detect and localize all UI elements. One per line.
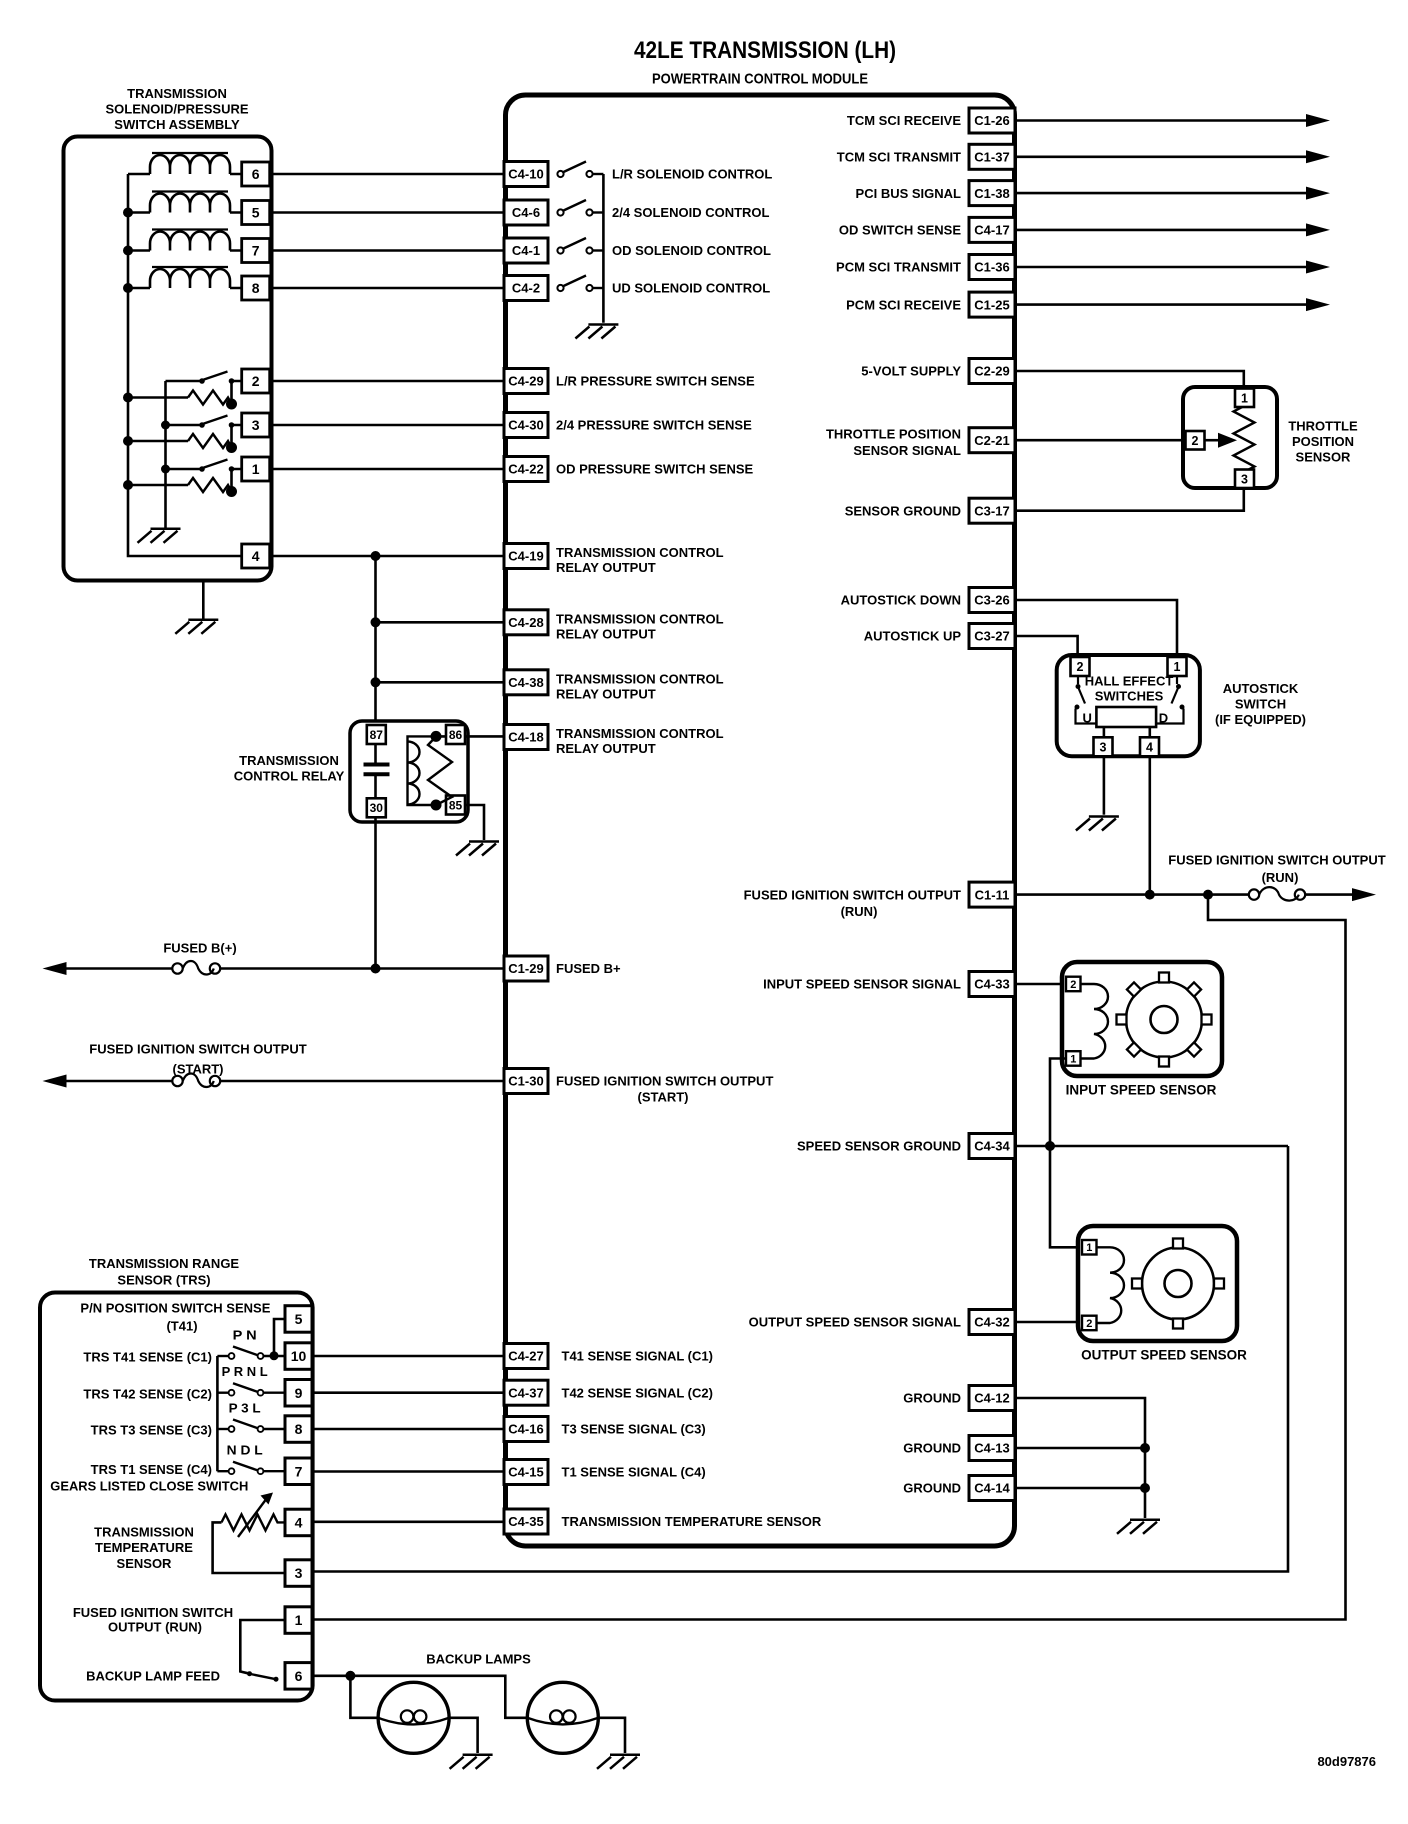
svg-text:D: D (1159, 711, 1168, 726)
svg-text:30: 30 (370, 801, 384, 815)
TPS wiper arrow (1205, 433, 1238, 448)
PCM pin C3-27 (969, 624, 1015, 649)
svg-text:(START): (START) (637, 1090, 688, 1105)
svg-text:OD SOLENOID CONTROL: OD SOLENOID CONTROL (612, 243, 771, 258)
relay pin 30 (367, 798, 386, 817)
OD pressure switch resistor feed wire (128, 484, 188, 487)
solenoid driver ground bus wire (602, 174, 605, 323)
wire pin 3 to C4-30 (270, 424, 504, 427)
svg-text:FUSED IGNITION SWITCH OUTPUT: FUSED IGNITION SWITCH OUTPUT (1168, 852, 1385, 867)
svg-text:2: 2 (1086, 1318, 1092, 1330)
TRS pin 6 (285, 1663, 312, 1690)
svg-text:C1-11: C1-11 (975, 887, 1010, 902)
assembly pin 6 (242, 162, 270, 186)
PCM pin C1-29 (504, 956, 548, 981)
svg-text:TEMPERATURE: TEMPERATURE (95, 1540, 193, 1555)
label TRANSMISSION CONTROL RELAY OUTPUT (556, 545, 724, 575)
svg-text:TRANSMISSION RANGE: TRANSMISSION RANGE (89, 1256, 240, 1271)
L/R pressure switch blade (203, 372, 228, 381)
PCM pin C4-6 (504, 200, 548, 225)
svg-text:4: 4 (295, 1514, 303, 1530)
svg-text:FUSED B+: FUSED B+ (556, 961, 621, 976)
junction bus-res L/R (123, 393, 133, 403)
TRS T1 switch (217, 1462, 285, 1474)
wire fused ignition start to arrow (66, 1080, 172, 1083)
powertrain control module box U1 (506, 95, 1015, 1546)
wire temp sensor to pin 3 (213, 1522, 285, 1573)
wire TRS pin 8 to C4-16 (312, 1428, 504, 1431)
wire TRS pin 1 to backup switch (240, 1620, 285, 1673)
2/4 pressure switch wire from inner bus (166, 424, 200, 427)
label FUSED IGNITION SWITCH OUTPUT (START) (556, 1074, 773, 1105)
label HALL EFFECT SWITCHES (1085, 674, 1174, 704)
svg-text:C4-14: C4-14 (974, 1481, 1010, 1496)
UD solenoid coil (pin 8) wire (128, 287, 242, 290)
PCM pin C4-29 (504, 369, 548, 394)
svg-text:AUTOSTICK: AUTOSTICK (1223, 681, 1299, 696)
transmission solenoid/pressure switch assembly box (64, 137, 272, 581)
assembly pin 2 (242, 369, 270, 393)
transmission control relay label (234, 753, 345, 784)
svg-text:(START): (START) (172, 1062, 223, 1077)
label FUSED IGNITION SWITCH OUTPUT (RUN) (73, 1605, 233, 1634)
throttle position sensor label (1288, 418, 1358, 464)
wire backup lamp 1 to ground (449, 1718, 478, 1753)
junction C4-13 ground (1140, 1443, 1150, 1453)
svg-text:4: 4 (1146, 740, 1153, 754)
svg-text:10: 10 (291, 1348, 307, 1364)
svg-text:PCM SCI TRANSMIT: PCM SCI TRANSMIT (836, 260, 961, 275)
svg-text:C4-33: C4-33 (974, 977, 1009, 992)
svg-text:SWITCH ASSEMBLY: SWITCH ASSEMBLY (114, 117, 240, 132)
svg-text:87: 87 (370, 728, 384, 742)
wire C2-21 to TPS pin 2 (1015, 439, 1185, 442)
OD pressure switch contact wire (232, 469, 242, 492)
svg-text:C4-22: C4-22 (508, 462, 543, 477)
assembly pin 5 (242, 201, 270, 225)
wire autostick pin 3 to ground (1103, 757, 1106, 815)
L/R pressure switch pivot contact (199, 378, 205, 384)
assembly pin 8 (242, 276, 270, 300)
junction run-autostick (1145, 890, 1155, 900)
svg-text:FUSED IGNITION SWITCH: FUSED IGNITION SWITCH (73, 1605, 233, 1620)
wire pin 7 to C4-1 (270, 249, 504, 252)
svg-text:C4-27: C4-27 (508, 1349, 543, 1364)
PCM pin C4-28 (504, 610, 548, 635)
2/4 pressure switch contact wire (232, 425, 242, 448)
svg-text:7: 7 (295, 1463, 303, 1479)
wire relay 30 to fused B+ line (374, 818, 377, 969)
junction bus-coil7 (123, 246, 133, 256)
svg-text:TRANSMISSION CONTROL: TRANSMISSION CONTROL (556, 726, 724, 741)
input speed sensor box (1062, 962, 1222, 1076)
svg-text:(IF EQUIPPED): (IF EQUIPPED) (1215, 712, 1306, 727)
input speed sensor rotor (1117, 973, 1212, 1067)
wire C1-11 run line (1015, 893, 1254, 896)
svg-text:T42 SENSE SIGNAL (C2): T42 SENSE SIGNAL (C2) (562, 1385, 713, 1400)
svg-text:C4-34: C4-34 (974, 1139, 1010, 1154)
svg-text:TRANSMISSION: TRANSMISSION (239, 753, 339, 768)
svg-text:3: 3 (252, 417, 260, 433)
OD solenoid coil (150, 230, 230, 251)
UD solenoid coil (150, 267, 230, 288)
svg-text:86: 86 (449, 728, 463, 742)
svg-text:SWITCH: SWITCH (1235, 697, 1286, 712)
transmission control relay output bus wire (374, 556, 377, 725)
svg-text:C4-28: C4-28 (508, 615, 543, 630)
PCM pin C1-37 (969, 144, 1015, 169)
junction T41-pin5 (270, 1351, 279, 1360)
L/R pressure switch contact junction (229, 378, 235, 384)
svg-text:AUTOSTICK UP: AUTOSTICK UP (864, 629, 962, 644)
2/4 pressure switch contact junction (229, 422, 235, 428)
transmission control relay K1 box (350, 721, 468, 822)
relay capacitor (364, 765, 390, 775)
pressure switch ground (138, 529, 181, 543)
PCM pin C1-30 (504, 1069, 548, 1094)
svg-text:2: 2 (1070, 979, 1076, 991)
svg-text:C1-30: C1-30 (508, 1074, 543, 1089)
svg-text:8: 8 (295, 1421, 303, 1437)
assembly case ground (175, 620, 218, 634)
svg-text:2/4 PRESSURE SWITCH SENSE: 2/4 PRESSURE SWITCH SENSE (556, 418, 752, 433)
relay pin 87 (367, 725, 386, 744)
svg-text:CONTROL RELAY: CONTROL RELAY (234, 769, 345, 784)
assembly pin 7 (242, 239, 270, 263)
svg-text:C2-21: C2-21 (974, 433, 1009, 448)
PCM pin C4-2 (504, 276, 548, 301)
PCM pin C4-33 (969, 972, 1015, 997)
TRS switch left bus wire (216, 1356, 219, 1471)
PCM pin C4-34 (969, 1134, 1015, 1159)
PCM pin C4-17 (969, 217, 1015, 242)
svg-text:(RUN): (RUN) (1262, 870, 1299, 885)
wire TCM SCI RECEIVE (1015, 119, 1307, 122)
svg-text:SENSOR: SENSOR (117, 1556, 173, 1571)
svg-text:BACKUP LAMP FEED: BACKUP LAMP FEED (86, 1669, 220, 1684)
wire pin 4 to C4-19 (270, 555, 504, 558)
svg-text:RELAY OUTPUT: RELAY OUTPUT (556, 741, 656, 756)
svg-text:SOLENOID/PRESSURE: SOLENOID/PRESSURE (105, 102, 248, 117)
wire TCM SCI TRANSMIT (1015, 156, 1307, 159)
wire C1-29 fused B+ (221, 967, 504, 970)
OD pressure switch resistor junction (226, 486, 237, 497)
assembly pin 4 (242, 544, 270, 568)
autostick up hall switch (1075, 676, 1097, 724)
arrow TCM SCI TRANSMIT (1306, 150, 1330, 163)
svg-text:7: 7 (252, 243, 260, 259)
wire TRS pin 4 to C4-35 (312, 1521, 504, 1524)
junction C4-28 (371, 617, 381, 627)
wire C3-26 to autostick pin 1 (1015, 600, 1177, 655)
svg-text:80d97876: 80d97876 (1317, 1754, 1376, 1769)
svg-text:(RUN): (RUN) (841, 904, 878, 919)
svg-text:5: 5 (252, 205, 260, 221)
svg-text:P N: P N (233, 1329, 257, 1343)
svg-text:T3 SENSE SIGNAL (C3): T3 SENSE SIGNAL (C3) (562, 1422, 706, 1437)
arrow fused B+ left (43, 962, 67, 975)
junction bus-coil8 (123, 283, 133, 293)
arrow run right (1352, 888, 1376, 901)
svg-text:FUSED IGNITION SWITCH OUTPUT: FUSED IGNITION SWITCH OUTPUT (744, 887, 961, 902)
svg-text:C4-10: C4-10 (508, 167, 543, 182)
temperature sensor arrow head (261, 1493, 274, 1505)
PCM pin C1-36 (969, 255, 1015, 280)
label FUSED IGNITION SWITCH OUTPUT (START) (89, 1042, 306, 1077)
svg-text:POSITION: POSITION (1292, 434, 1354, 449)
wire C4-34 speed sensor ground (1015, 1145, 1288, 1148)
PCM pin C4-12 (969, 1386, 1015, 1411)
junction backup lamps (345, 1671, 355, 1681)
svg-text:C3-26: C3-26 (974, 593, 1009, 608)
output speed sensor box (1078, 1226, 1237, 1341)
transmission range sensor box (40, 1293, 313, 1701)
PCM pin C4-35 (504, 1509, 548, 1534)
input speed sensor coil (1081, 984, 1109, 1059)
2/4 pressure switch resistor (188, 434, 232, 448)
svg-text:P/N POSITION SWITCH SENSE: P/N POSITION SWITCH SENSE (80, 1301, 270, 1316)
svg-text:TRS T1 SENSE (C4): TRS T1 SENSE (C4) (91, 1462, 212, 1477)
OD pressure switch resistor (188, 478, 232, 492)
svg-text:RELAY OUTPUT: RELAY OUTPUT (556, 686, 656, 701)
wire C4-32 to output speed sensor pin 2 (1015, 1321, 1082, 1324)
svg-text:GEARS LISTED CLOSE SWITCH: GEARS LISTED CLOSE SWITCH (50, 1479, 248, 1494)
svg-text:POWERTRAIN CONTROL MODULE: POWERTRAIN CONTROL MODULE (652, 71, 868, 88)
svg-text:3: 3 (1100, 740, 1107, 754)
junction C4-38 (371, 677, 381, 687)
junction run-branch (1203, 890, 1213, 900)
wire C2-29 to TPS pin 1 (1015, 371, 1244, 388)
PCM pin C4-37 (504, 1380, 548, 1405)
backup lamp 2 (527, 1682, 598, 1753)
wire pin 1 to C4-22 (270, 468, 504, 471)
svg-text:C4-2: C4-2 (512, 281, 540, 296)
wire speed sensor ground to TRS pin 3 (312, 1146, 1288, 1572)
svg-text:3: 3 (1241, 472, 1248, 486)
L/R pressure switch resistor feed wire (128, 396, 188, 399)
2/4 pressure switch blade (203, 416, 228, 425)
svg-text:PCI BUS SIGNAL: PCI BUS SIGNAL (856, 186, 962, 201)
wire C4-14 to ground (1015, 1487, 1145, 1490)
fuse F1 (172, 961, 220, 975)
autostick pin 1 (1168, 657, 1187, 676)
wire OD SWITCH SENSE (1015, 229, 1307, 232)
svg-text:6: 6 (252, 166, 260, 182)
svg-text:L/R PRESSURE SWITCH SENSE: L/R PRESSURE SWITCH SENSE (556, 374, 755, 389)
wire PCI BUS SIGNAL (1015, 192, 1307, 195)
svg-text:C4-12: C4-12 (974, 1391, 1009, 1406)
L/R solenoid coil (150, 153, 230, 174)
PCM pin C1-25 (969, 292, 1015, 317)
relay capacitor wire bottom (374, 776, 377, 798)
svg-text:THROTTLE: THROTTLE (1288, 418, 1358, 433)
svg-text:T41 SENSE SIGNAL (C1): T41 SENSE SIGNAL (C1) (562, 1349, 713, 1364)
relay pin 86 (446, 725, 465, 744)
svg-text:C4-29: C4-29 (508, 374, 543, 389)
wire bus to C4-38 (376, 681, 505, 684)
output speed sensor coil (1097, 1247, 1125, 1323)
backup lamp 1 (378, 1682, 449, 1753)
assembly case ground stub wire (202, 581, 205, 620)
relay pin 85 (446, 796, 465, 815)
svg-text:OUTPUT (RUN): OUTPUT (RUN) (108, 1619, 202, 1634)
relay coil (408, 736, 453, 805)
TRS pin 10 (285, 1343, 312, 1370)
svg-text:TRANSMISSION CONTROL: TRANSMISSION CONTROL (556, 611, 724, 626)
autostick switch label (1215, 681, 1306, 727)
arrow OD SWITCH SENSE (1306, 223, 1330, 236)
wire C4-12 to ground (1015, 1398, 1145, 1518)
throttle position sensor box (1183, 387, 1277, 488)
wire pin 8 to C4-2 (270, 287, 504, 290)
assembly pin 3 (242, 413, 270, 437)
wire pin 2 to C4-29 (270, 380, 504, 383)
TRS backup lamp switch (247, 1671, 279, 1682)
svg-text:C4-30: C4-30 (508, 418, 543, 433)
PCM ground (1117, 1520, 1160, 1534)
svg-text:UD SOLENOID CONTROL: UD SOLENOID CONTROL (612, 281, 770, 296)
backup lamp 1 ground (450, 1755, 493, 1769)
label TRANSMISSION CONTROL RELAY OUTPUT (556, 671, 724, 701)
svg-text:C4-19: C4-19 (508, 549, 543, 564)
PCM pin C4-30 (504, 413, 548, 438)
svg-text:FUSED B(+): FUSED B(+) (163, 941, 236, 956)
wire TRS pin 10 to C4-27 (312, 1355, 504, 1358)
autostick pin 3 (1094, 737, 1113, 756)
svg-text:C1-37: C1-37 (974, 149, 1009, 164)
pressure switch inner bus wire (164, 381, 167, 529)
PCM pin C4-13 (969, 1436, 1015, 1461)
autostick pin 4 (1140, 737, 1159, 756)
svg-text:C4-17: C4-17 (974, 223, 1009, 238)
svg-text:RELAY OUTPUT: RELAY OUTPUT (556, 626, 656, 641)
arrow PCI BUS SIGNAL (1306, 187, 1330, 200)
arrow TCM SCI RECEIVE (1306, 114, 1330, 127)
wire TRS pin 9 to C4-37 (312, 1391, 504, 1394)
wire autostick pin 4 to run line (1149, 757, 1152, 895)
UD solenoid driver switch (557, 276, 603, 292)
svg-text:FUSED IGNITION SWITCH OUTPUT: FUSED IGNITION SWITCH OUTPUT (89, 1042, 306, 1057)
svg-text:42LE TRANSMISSION (LH): 42LE TRANSMISSION (LH) (634, 37, 896, 64)
svg-text:SWITCHES: SWITCHES (1095, 688, 1164, 703)
junction inner bus 2/4 (161, 421, 170, 430)
svg-text:INPUT SPEED SENSOR: INPUT SPEED SENSOR (1066, 1083, 1217, 1098)
L/R pressure switch resistor junction (226, 399, 237, 410)
TRS pin 1 (285, 1607, 312, 1634)
TRS T41 switch (217, 1347, 285, 1359)
svg-text:C4-35: C4-35 (508, 1514, 543, 1529)
L/R pressure switch resistor (188, 391, 232, 405)
svg-text:2: 2 (252, 373, 260, 389)
PCM pin C4-27 (504, 1344, 548, 1369)
label TRANSMISSION CONTROL RELAY OUTPUT (556, 726, 724, 756)
svg-text:1: 1 (295, 1612, 303, 1628)
output speed sensor pin 2 (1082, 1316, 1097, 1331)
arrow PCM SCI RECEIVE (1306, 298, 1330, 311)
wire relay 85 to ground (465, 805, 484, 840)
PCM pin C3-17 (969, 498, 1015, 523)
relay coil junction top (431, 731, 442, 742)
svg-text:C4-1: C4-1 (512, 243, 540, 258)
svg-text:C1-36: C1-36 (974, 260, 1009, 275)
wire TRS pin 7 to C4-15 (312, 1470, 504, 1473)
svg-text:1: 1 (1070, 1053, 1076, 1065)
wire C4-13 to ground (1015, 1447, 1145, 1450)
svg-text:TRANSMISSION TEMPERATURE SENSO: TRANSMISSION TEMPERATURE SENSOR (562, 1514, 822, 1529)
OD pressure switch contact junction (229, 466, 235, 472)
2/4 solenoid driver switch (557, 200, 603, 216)
svg-text:1: 1 (1086, 1242, 1092, 1254)
svg-text:TRS T42 SENSE (C2): TRS T42 SENSE (C2) (83, 1386, 212, 1401)
junction bus-coil5 (123, 208, 133, 218)
TRS pin 4 (285, 1509, 312, 1536)
PCM pin C4-10 (504, 162, 548, 187)
wire pin 5 to C4-6 (270, 211, 504, 214)
relay capacitor wire top (374, 744, 377, 763)
output speed sensor rotor (1132, 1239, 1224, 1329)
PCM pin C3-26 (969, 588, 1015, 613)
junction relay-fusedB+ (371, 964, 381, 974)
PCM pin C4-32 (969, 1310, 1015, 1335)
wire C3-27 to autostick pin 2 (1015, 636, 1078, 655)
autostick magnet bar (1096, 707, 1156, 727)
fuse F3 (1249, 887, 1305, 901)
svg-text:TRANSMISSION CONTROL: TRANSMISSION CONTROL (556, 671, 724, 686)
svg-text:5: 5 (295, 1311, 303, 1327)
svg-text:T1 SENSE SIGNAL (C4): T1 SENSE SIGNAL (C4) (562, 1465, 706, 1480)
PCM pin C4-38 (504, 670, 548, 695)
svg-text:OUTPUT SPEED SENSOR SIGNAL: OUTPUT SPEED SENSOR SIGNAL (749, 1315, 961, 1330)
backup lamp 2 ground (597, 1755, 640, 1769)
PCM pin C4-22 (504, 457, 548, 482)
OD pressure switch blade (203, 460, 228, 469)
svg-text:GROUND: GROUND (903, 1391, 961, 1406)
PCM pin C1-38 (969, 181, 1015, 206)
label TRANSMISSION CONTROL RELAY OUTPUT (556, 611, 724, 641)
svg-text:SPEED SENSOR GROUND: SPEED SENSOR GROUND (797, 1139, 961, 1154)
2/4 solenoid coil (150, 192, 230, 213)
svg-text:C3-27: C3-27 (974, 629, 1009, 644)
autostick ground (1076, 817, 1119, 831)
wire run branch to TRS pin 1 (312, 895, 1346, 1620)
svg-text:SENSOR (TRS): SENSOR (TRS) (117, 1272, 210, 1287)
TRS T3 switch (217, 1420, 285, 1432)
PCM pin C4-18 (504, 725, 548, 750)
TRS pin 5 (285, 1306, 312, 1333)
svg-text:C1-25: C1-25 (974, 297, 1009, 312)
L/R pressure switch wire from inner bus (166, 380, 200, 383)
arrow fused ignition start left (43, 1075, 67, 1088)
junction speed sensor ground (1045, 1141, 1055, 1151)
TPS pin 2 (1186, 431, 1205, 450)
svg-text:C4-13: C4-13 (974, 1441, 1009, 1456)
wire to backup lamp 1 (350, 1676, 378, 1718)
svg-text:GROUND: GROUND (903, 1481, 961, 1496)
svg-text:BACKUP LAMPS: BACKUP LAMPS (426, 1652, 531, 1667)
svg-text:C2-29: C2-29 (974, 364, 1009, 379)
svg-text:L/R SOLENOID CONTROL: L/R SOLENOID CONTROL (612, 167, 772, 182)
svg-text:2: 2 (1192, 434, 1199, 448)
svg-text:INPUT SPEED SENSOR SIGNAL: INPUT SPEED SENSOR SIGNAL (763, 977, 961, 992)
wire fused B+ to arrow (66, 967, 172, 970)
svg-text:C4-6: C4-6 (512, 205, 540, 220)
svg-text:SENSOR SIGNAL: SENSOR SIGNAL (853, 443, 961, 458)
junction inner bus OD (161, 465, 170, 474)
svg-text:OD SWITCH SENSE: OD SWITCH SENSE (839, 223, 961, 238)
wire junction to output sensor pin 1 (1050, 1146, 1082, 1247)
wire bus to C4-28 (376, 621, 505, 624)
svg-text:TCM SCI TRANSMIT: TCM SCI TRANSMIT (837, 150, 961, 165)
